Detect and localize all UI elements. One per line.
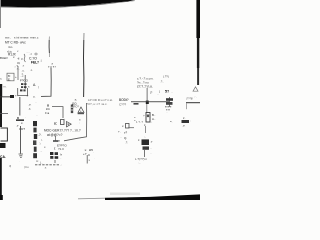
svg-text:+?: +? xyxy=(83,152,87,156)
wire Q4 down xyxy=(86,155,89,164)
svg-text:z.: z. xyxy=(144,123,146,127)
transformer T1 core box xyxy=(18,88,28,96)
svg-text:(..: (.. xyxy=(40,160,43,164)
svg-text:C???: C??? xyxy=(119,103,127,107)
svg-text:ww.,: ww., xyxy=(5,36,11,40)
svg-text:..: .. xyxy=(150,146,152,150)
svg-text:x.: x. xyxy=(44,145,46,149)
wire stack right xyxy=(24,75,27,89)
svg-text:...: ... xyxy=(40,149,43,153)
svg-text:c?.?.:?.n.u.: c?.?.:?.n.u. xyxy=(137,84,153,88)
svg-text:(.??): (.??) xyxy=(163,75,169,79)
svg-text:1 ?..?: 1 ?..? xyxy=(136,120,143,124)
wire horizontal with junction xyxy=(0,95,13,98)
svg-text:(???): (???) xyxy=(186,97,192,101)
svg-text:z·n·s·r: z·n·s·r xyxy=(48,64,56,68)
svg-text:Q.: Q. xyxy=(124,136,127,140)
svg-text:.:.: .:. xyxy=(150,120,153,124)
wire from note block xyxy=(146,88,149,101)
svg-text:(: ( xyxy=(38,85,39,89)
svg-text:z.: z. xyxy=(138,138,140,142)
op-amp triangle U2 xyxy=(67,122,72,127)
svg-text:..=: ..= xyxy=(29,52,33,56)
wire vertical right of triangle xyxy=(64,103,87,141)
svg-text:z·: z· xyxy=(183,116,186,120)
svg-text:c.: c. xyxy=(21,121,24,125)
svg-text:L.?(??):n: L.?(??):n xyxy=(135,157,147,161)
junction dot xyxy=(10,95,14,98)
svg-text::·.: :·. xyxy=(195,96,198,99)
svg-text:F?CO: F?CO xyxy=(20,78,29,82)
svg-text:o.: o. xyxy=(33,94,36,98)
diode D1 stack xyxy=(145,104,148,113)
svg-text::.: :. xyxy=(144,135,146,139)
svg-text:.?.: .?. xyxy=(38,133,42,137)
svg-text:rn.: rn. xyxy=(3,85,6,89)
connector J1 xyxy=(168,97,171,107)
svg-text:E.: E. xyxy=(8,77,11,81)
bus wire horizontal xyxy=(131,100,169,103)
scan border bottom right band xyxy=(105,194,200,200)
svg-text:-il: -il xyxy=(17,56,20,60)
svg-text:.?.: .?. xyxy=(182,124,186,128)
svg-text:\.: \. xyxy=(41,138,43,142)
svg-text:z?: z? xyxy=(124,130,128,134)
svg-text:A.: A. xyxy=(33,83,36,87)
resistor R2 xyxy=(54,136,57,141)
svg-text:..: .. xyxy=(171,89,173,93)
svg-text:MT C RD- wvc: MT C RD- wvc xyxy=(5,40,26,44)
svg-text:?1.0: ?1.0 xyxy=(58,147,64,151)
warning triangle symbol xyxy=(71,105,73,114)
svg-text:.?.: .?. xyxy=(44,166,47,170)
svg-text:s ini renew. rrnm.c: s ini renew. rrnm.c xyxy=(14,35,39,39)
wire vertical to ground xyxy=(19,126,22,154)
junction node dot xyxy=(146,101,149,104)
right wire segment xyxy=(186,102,200,103)
svg-text:5?: 5? xyxy=(165,89,169,93)
svg-text:...?: ...? xyxy=(56,139,60,143)
wire long vertical bus xyxy=(83,33,85,40)
svg-text:.?.: .?. xyxy=(125,141,128,145)
svg-text:.c.: .c. xyxy=(28,106,31,110)
scan border right bar xyxy=(196,0,200,38)
svg-text:a,: a, xyxy=(0,78,2,81)
svg-text:.\: .\ xyxy=(39,141,41,145)
svg-text:.?..: .?.. xyxy=(160,80,164,84)
svg-text:(Co: (Co xyxy=(24,165,29,169)
svg-text:=.: =. xyxy=(170,119,173,123)
ground xyxy=(19,154,24,158)
svg-text:CD?: CD? xyxy=(19,127,25,131)
indicator symbol triangle xyxy=(193,87,198,91)
transformer T1 winding stack xyxy=(21,83,23,85)
connector J2 dense block xyxy=(50,152,53,155)
relay K1 box xyxy=(7,73,14,81)
terminal label bottom left xyxy=(0,143,6,148)
svg-text:..: .. xyxy=(120,135,122,139)
svg-text:?O?,.u: n? .ta.c.: ?O?,.u: n? .ta.c. xyxy=(86,102,108,106)
svg-text:3|: 3| xyxy=(9,164,12,168)
svg-text:at @@?=?: at @@?=? xyxy=(47,133,63,137)
scan border top band xyxy=(0,0,135,7)
wire Q5 stub xyxy=(128,126,134,129)
svg-text:CA.: CA. xyxy=(0,155,6,159)
svg-text:BODt?: BODt? xyxy=(119,98,129,102)
scan border left edge xyxy=(0,0,1,28)
wire vertical mid xyxy=(41,68,51,97)
wire D1 to D2 xyxy=(144,126,147,133)
wire D2 down xyxy=(143,150,146,157)
dashed wire bottom xyxy=(35,164,60,166)
svg-text:v.: v. xyxy=(17,50,19,53)
svg-text:±:a: ±:a xyxy=(45,111,49,115)
svg-text:FEL?: FEL? xyxy=(31,60,39,64)
svg-text:+.: +. xyxy=(15,94,18,98)
wire Q2 to node xyxy=(52,107,63,118)
svg-text:+: + xyxy=(15,75,17,79)
wire vertical upper (node A) xyxy=(48,37,50,41)
svg-text:MOC-GER t?.??? ?.. :m.?: MOC-GER t?.??? ?.. :m.? xyxy=(44,128,81,132)
svg-text:.n.: .n. xyxy=(30,69,33,72)
svg-text:+.: +. xyxy=(118,130,121,134)
wire stub xyxy=(17,66,20,80)
wire input left xyxy=(0,57,8,60)
side label column (rotated text) xyxy=(33,121,37,126)
svg-text:n:: n: xyxy=(36,159,39,163)
wire stub down xyxy=(185,103,188,109)
wire vertical from junction xyxy=(18,97,21,116)
svg-text:s:: s: xyxy=(54,121,57,125)
svg-text:A..: A.. xyxy=(152,117,156,121)
svg-text::...: :... xyxy=(138,162,141,165)
